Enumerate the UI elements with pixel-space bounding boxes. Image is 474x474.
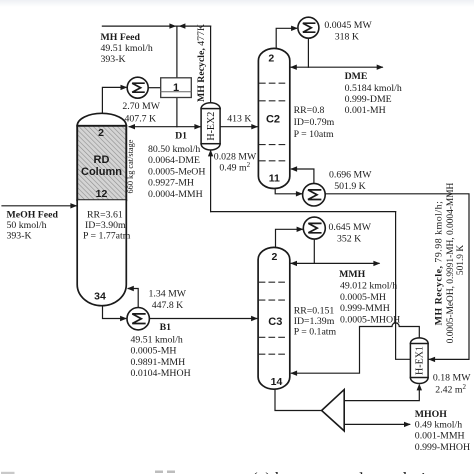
svg-text:1: 1 bbox=[173, 82, 179, 94]
text: 413 K label bbox=[227, 114, 251, 125]
text: C2 labels bbox=[266, 53, 280, 185]
svg-text:B1: B1 bbox=[160, 322, 172, 333]
wire: C3 condenser drop to MMH header bbox=[313, 239, 315, 263]
svg-text:MeOH Feed: MeOH Feed bbox=[7, 210, 59, 221]
svg-text:0.0045 MW: 0.0045 MW bbox=[324, 20, 372, 31]
svg-text:P = 1.77atm: P = 1.77atm bbox=[83, 230, 131, 241]
svg-text:ID=3.90m: ID=3.90m bbox=[85, 220, 126, 231]
wire: MeOH feed line bbox=[2, 203, 77, 208]
svg-text:H-EX1: H-EX1 bbox=[415, 346, 426, 375]
svg-text:0.999-MMH: 0.999-MMH bbox=[340, 303, 390, 314]
wire: B1 line to C3 bbox=[149, 316, 258, 321]
text: RD column specs bbox=[83, 209, 131, 241]
svg-text:501.9 K: 501.9 K bbox=[456, 245, 466, 275]
wire: H-EX2 bottom riser from recycle header bbox=[208, 150, 213, 212]
svg-text:ID=0.79m: ID=0.79m bbox=[294, 117, 335, 128]
text: MH Recycle right rotated block bbox=[434, 182, 467, 343]
svg-text:0.001-MH: 0.001-MH bbox=[345, 105, 386, 116]
svg-text:D1: D1 bbox=[175, 131, 187, 142]
RD condenser bbox=[127, 77, 148, 98]
wire: C3 overhead to condenser bbox=[276, 227, 304, 248]
text: RD column labels bbox=[81, 127, 122, 303]
svg-text:0.0005-MeOH: 0.0005-MeOH bbox=[148, 166, 205, 177]
svg-text:0.645 MW: 0.645 MW bbox=[329, 222, 372, 233]
top gray band bbox=[0, 0, 474, 7]
svg-text:0.0005-MHOH: 0.0005-MHOH bbox=[340, 314, 400, 325]
svg-text:ID=1.39m: ID=1.39m bbox=[294, 316, 335, 327]
svg-text:RD: RD bbox=[94, 154, 110, 166]
text: C2 reboiler duty bbox=[329, 170, 372, 193]
svg-text:34: 34 bbox=[94, 291, 106, 303]
wire: MMH header with reflux arrow and product arrow bbox=[290, 261, 380, 266]
wire: C2 condenser drop to DME header bbox=[307, 38, 309, 67]
text: C3 condenser duty bbox=[329, 222, 372, 245]
svg-text:2: 2 bbox=[271, 251, 277, 263]
svg-text:MH Recycle, 477K: MH Recycle, 477K bbox=[196, 24, 207, 102]
text: D1 stream block bbox=[148, 131, 205, 200]
svg-text:MMH: MMH bbox=[339, 269, 365, 280]
svg-text:0.9891-MMH: 0.9891-MMH bbox=[131, 357, 186, 368]
svg-text:14: 14 bbox=[271, 376, 283, 388]
C2 column shell bbox=[258, 48, 289, 188]
wire: triangle to H-EX1 bottom bbox=[344, 384, 422, 401]
wire: drum 1 down to reflux/D1 header bbox=[176, 98, 178, 127]
text: DME stream block bbox=[345, 71, 402, 116]
svg-text:318 K: 318 K bbox=[335, 31, 359, 42]
text: H-EX1 duty bbox=[433, 373, 471, 396]
svg-text:2.70 MW: 2.70 MW bbox=[122, 101, 160, 112]
C2 tray dashed lines bbox=[260, 83, 289, 161]
wire: C2 bottoms to reboiler bbox=[275, 184, 303, 196]
svg-text:0.0005-MeOH, 0.9991-MH, 0.0004: 0.0005-MeOH, 0.9991-MH, 0.0004-MMH bbox=[446, 182, 456, 343]
svg-text:2.42 m2: 2.42 m2 bbox=[435, 383, 466, 396]
C2 reboiler bbox=[303, 183, 326, 206]
svg-text:352 K: 352 K bbox=[337, 233, 361, 244]
text: C2 condenser duty bbox=[324, 20, 372, 43]
text: B1 stream block bbox=[131, 322, 191, 379]
arrow: recycle junction left-pointing bbox=[179, 23, 186, 28]
svg-text:49.51 kmol/h: 49.51 kmol/h bbox=[131, 335, 183, 346]
wire: RD reboiler vapor return bbox=[127, 286, 138, 308]
svg-text:49.51 kmol/h: 49.51 kmol/h bbox=[101, 43, 153, 54]
reflux drum 1 bbox=[161, 78, 192, 98]
svg-text:0.001-MMH: 0.001-MMH bbox=[415, 431, 465, 442]
svg-text:RR=3.61: RR=3.61 bbox=[87, 209, 123, 220]
svg-text:447.8 K: 447.8 K bbox=[152, 300, 184, 311]
C3 tray dashed lines bbox=[259, 282, 288, 354]
svg-text:C3: C3 bbox=[268, 316, 282, 328]
svg-text:50 kmol/h: 50 kmol/h bbox=[7, 220, 47, 231]
svg-text:P = 10atm: P = 10atm bbox=[294, 129, 334, 140]
svg-text:0.5184 kmol/h: 0.5184 kmol/h bbox=[345, 83, 402, 94]
wire: H-EX1 top loop back to C3 with hop bbox=[290, 323, 419, 376]
svg-text:(a) base case column design: (a) base case column design bbox=[252, 469, 443, 474]
wire: H-EX2 to C2 413K line bbox=[220, 124, 258, 129]
vacuum pump triangle bbox=[322, 390, 345, 431]
svg-text:P = 0.1atm: P = 0.1atm bbox=[294, 327, 337, 338]
wire: C2 reboiler vapor return bbox=[290, 166, 314, 183]
text: MeOH Feed block bbox=[7, 210, 59, 242]
svg-text:0.9927-MH: 0.9927-MH bbox=[148, 178, 194, 189]
text: RD condenser duty bbox=[122, 101, 160, 124]
svg-text:0.0005-MH: 0.0005-MH bbox=[340, 292, 386, 303]
text: C3 specs bbox=[294, 306, 337, 338]
wire: DME header with reflux arrow and product arrow bbox=[290, 65, 384, 70]
svg-text:0.0064-DME: 0.0064-DME bbox=[148, 155, 200, 166]
wire: MH recycle riser bbox=[210, 26, 212, 103]
text: H-EX2 duty bbox=[214, 152, 257, 174]
wire: reflux/D1 header line bbox=[128, 124, 201, 129]
svg-text:413 K: 413 K bbox=[227, 114, 251, 125]
C2 condenser bbox=[298, 17, 319, 38]
svg-text:0.999-MHOH: 0.999-MHOH bbox=[415, 442, 470, 453]
svg-text:49.012 kmol/h: 49.012 kmol/h bbox=[340, 281, 397, 292]
svg-text:11: 11 bbox=[269, 173, 280, 185]
wire: MHOH product line bbox=[344, 422, 411, 427]
wire: junction down to drum 1 bbox=[176, 26, 178, 78]
wire: condenser to drum 1 bbox=[148, 87, 161, 89]
svg-text:0.49 m2: 0.49 m2 bbox=[219, 161, 250, 174]
svg-text:1.34 MW: 1.34 MW bbox=[149, 289, 187, 300]
svg-text:0.49 kmol/h: 0.49 kmol/h bbox=[415, 419, 462, 430]
text: 660 kg cat/stage rotated bbox=[126, 139, 135, 193]
text: RD reboiler duty bbox=[149, 289, 187, 312]
wire: MH feed top line bbox=[102, 25, 210, 27]
text: C2 specs bbox=[294, 105, 335, 140]
svg-text:407.7 K: 407.7 K bbox=[125, 113, 157, 124]
svg-text:0.999-DME: 0.999-DME bbox=[345, 94, 392, 105]
text: MHOH stream block bbox=[415, 409, 470, 453]
wire: C2 bottoms recycle to right edge and down bbox=[325, 194, 469, 362]
text: MH Feed block bbox=[101, 32, 153, 65]
svg-text:501.9 K: 501.9 K bbox=[334, 181, 366, 192]
svg-text:0.0004-MMH: 0.0004-MMH bbox=[148, 189, 203, 200]
text: cut-off caption at bottom bbox=[252, 469, 443, 474]
svg-text:0.696 MW: 0.696 MW bbox=[329, 170, 372, 181]
svg-text:RR=0.151: RR=0.151 bbox=[294, 306, 335, 317]
svg-text:660 kg cat/stage: 660 kg cat/stage bbox=[126, 139, 135, 193]
wire: RD overhead to condenser bbox=[102, 85, 127, 114]
text: MH Recycle 477K rotated bbox=[196, 24, 207, 102]
text: MMH stream block bbox=[339, 269, 400, 325]
svg-text:H-EX2: H-EX2 bbox=[206, 112, 217, 141]
svg-text:MH Recycle, 79.98 kmol/h;: MH Recycle, 79.98 kmol/h; bbox=[434, 201, 445, 326]
svg-text:C2: C2 bbox=[266, 114, 280, 126]
C3 condenser bbox=[303, 217, 325, 239]
svg-text:393-K: 393-K bbox=[7, 231, 32, 242]
svg-text:MH Feed: MH Feed bbox=[101, 32, 141, 43]
wire: recycle header horizontal bbox=[211, 211, 396, 213]
wire: RD bottoms to reboiler bbox=[103, 306, 127, 322]
svg-text:RR=0.8: RR=0.8 bbox=[294, 105, 325, 116]
svg-text:Column: Column bbox=[81, 166, 122, 178]
RD column shell bbox=[77, 113, 126, 305]
svg-text:12: 12 bbox=[96, 188, 108, 200]
arrow: feed junction right-pointing bbox=[169, 23, 176, 28]
faint page artifacts bottom left bbox=[1, 471, 175, 474]
text: C3 labels bbox=[268, 251, 282, 388]
svg-text:0.028 MW: 0.028 MW bbox=[214, 152, 257, 163]
H-EX1 vessel bbox=[410, 338, 428, 384]
svg-text:DME: DME bbox=[345, 71, 368, 82]
RD reboiler bbox=[127, 308, 149, 330]
wire: C2 overhead to condenser bbox=[276, 26, 298, 50]
svg-text:80.50 kmol/h: 80.50 kmol/h bbox=[148, 144, 200, 155]
svg-text:0.0104-MHOH: 0.0104-MHOH bbox=[131, 368, 191, 379]
svg-text:2: 2 bbox=[98, 127, 104, 139]
svg-text:0.18 MW: 0.18 MW bbox=[433, 373, 471, 384]
wire: C3 bottoms to triangle bbox=[275, 390, 321, 411]
svg-text:0.0005-MH: 0.0005-MH bbox=[131, 346, 177, 357]
svg-text:2: 2 bbox=[268, 53, 274, 65]
wire: recycle header drop to H-EX1 bbox=[396, 212, 411, 360]
C3 column shell bbox=[258, 247, 290, 389]
H-EX2 vessel bbox=[201, 103, 220, 150]
svg-text:393-K: 393-K bbox=[101, 54, 126, 65]
